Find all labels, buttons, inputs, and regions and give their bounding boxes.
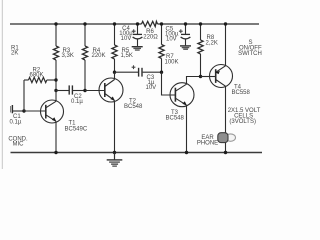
junction bottom rail / T1 emitter xyxy=(54,151,57,154)
node E (R5 / T2 collector / C3) xyxy=(113,71,116,74)
svg-text:3,3K: 3,3K xyxy=(62,53,74,59)
wire node G to T4 base xyxy=(201,76,216,78)
junction top rail / R7 xyxy=(160,22,163,25)
battery label xyxy=(228,108,261,125)
svg-text:680K: 680K xyxy=(30,73,44,79)
svg-text:10V: 10V xyxy=(146,85,157,91)
resistor R5 1,5K xyxy=(112,24,133,72)
ground (bottom rail earth) xyxy=(107,153,123,167)
wire T1 collector stub xyxy=(55,91,57,102)
svg-text:0.1µ: 0.1µ xyxy=(71,99,83,105)
node D (R4 / C2 / T2 base) xyxy=(83,89,86,92)
svg-text:10V: 10V xyxy=(166,37,177,43)
resistor R6 220ohm (in top rail) xyxy=(142,21,159,40)
junction bottom rail / T2 emitter / earth xyxy=(113,151,116,154)
ground (C5) xyxy=(180,45,191,50)
earphone xyxy=(197,133,236,147)
transistor T2 BC548 xyxy=(99,78,143,110)
capacitor C3 1u xyxy=(115,65,162,91)
junction top rail / C5 xyxy=(184,22,187,25)
wire top supply rail xyxy=(10,23,259,25)
node C (collector / C2) xyxy=(54,89,57,92)
transistor T1 BC549C xyxy=(41,100,88,132)
condenser mic label xyxy=(8,137,28,148)
capacitor C1 xyxy=(10,105,25,126)
resistor R8 2,2K xyxy=(198,24,218,77)
svg-text:2,2K: 2,2K xyxy=(206,41,218,47)
svg-text:BC548: BC548 xyxy=(124,104,143,110)
junction top rail / R4 xyxy=(83,22,86,25)
junction top rail / C4 xyxy=(136,22,139,25)
svg-text:100K: 100K xyxy=(165,60,179,66)
wire T4 emitter up to rail xyxy=(225,24,227,66)
transistor T3 BC548 xyxy=(166,83,195,122)
junction top rail / R5 xyxy=(113,22,116,25)
node A (C1 / R2 / T1 base) xyxy=(22,109,25,112)
svg-text:0.1µ: 0.1µ xyxy=(10,120,22,126)
resistor R3 3,3K xyxy=(53,24,73,91)
node G (R8 / T3 collector / T4 base) xyxy=(199,75,202,78)
resistor R2 680K (feedback) xyxy=(24,68,56,112)
junction bottom rail / earphone xyxy=(224,151,227,154)
svg-text:BC558: BC558 xyxy=(232,90,251,96)
svg-text:10V: 10V xyxy=(121,36,132,42)
wire T4 collector down to earphone xyxy=(225,86,227,133)
junction top rail / T4 emitter xyxy=(224,22,227,25)
svg-text:PHONE: PHONE xyxy=(197,140,218,146)
svg-text:(3VOLTS): (3VOLTS) xyxy=(229,119,256,125)
wire C1 to node xyxy=(13,110,24,112)
resistor R1 label (component cropped off left edge) xyxy=(11,46,19,57)
node F (R7 / C3 / T3 base) xyxy=(160,71,163,74)
capacitor C2 0.1u xyxy=(56,85,85,105)
switch label xyxy=(238,40,262,57)
junction bottom rail / T3 emitter xyxy=(185,151,188,154)
left border scan line xyxy=(1,0,3,169)
wire T3 collector up and right to node G xyxy=(187,77,201,85)
wire node A to T1 base xyxy=(24,110,46,112)
node top rail / R3 xyxy=(54,22,57,25)
svg-text:MIC: MIC xyxy=(13,142,25,148)
wire node D to T2 base xyxy=(85,90,105,92)
transistor T4 BC558 (PNP) xyxy=(210,65,251,96)
wire T2 collector stub xyxy=(114,72,116,79)
ground (C4) xyxy=(132,46,143,51)
svg-text:1,5K: 1,5K xyxy=(121,53,133,59)
wire T2 emitter to ground rail xyxy=(114,101,116,153)
svg-text:BC548: BC548 xyxy=(166,116,185,122)
wire node F down and to T3 base xyxy=(162,72,176,95)
capacitor C5 100u 10V xyxy=(165,24,190,45)
wire earphone to ground rail xyxy=(225,143,227,153)
wire T1 emitter to ground rail xyxy=(55,121,57,152)
wire bottom ground rail xyxy=(11,152,263,154)
junction top rail / R8 xyxy=(199,22,202,25)
capacitor C4 100u 10V xyxy=(119,24,142,46)
svg-text:BC549C: BC549C xyxy=(65,126,88,132)
svg-text:220Ω: 220Ω xyxy=(143,35,158,41)
resistor R7 100K xyxy=(159,24,179,72)
node B (R3 / R2 / T1 collector) xyxy=(54,78,57,81)
wire T3 emitter to ground rail xyxy=(186,105,188,152)
resistor R4 220K xyxy=(82,24,105,90)
svg-text:220K: 220K xyxy=(92,53,106,59)
svg-text:SWITCH: SWITCH xyxy=(238,51,262,57)
svg-text:2K: 2K xyxy=(11,51,18,57)
